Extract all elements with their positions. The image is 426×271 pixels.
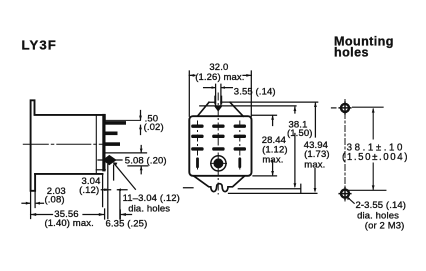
svg-text:dia. holes: dia. holes: [128, 203, 170, 214]
svg-text:LY3F: LY3F: [22, 37, 57, 52]
svg-text:(or 2 M3): (or 2 M3): [365, 221, 405, 232]
svg-text:5.08 (.20): 5.08 (.20): [125, 156, 167, 167]
svg-text:(1.50): (1.50): [287, 128, 313, 139]
svg-text:(1.40) max.: (1.40) max.: [45, 218, 94, 229]
svg-text:(.12): (.12): [79, 185, 99, 196]
svg-text:(.08): (.08): [45, 195, 65, 206]
svg-text:2-3.55 (.14): 2-3.55 (.14): [356, 200, 407, 211]
svg-text:3.55 (.14): 3.55 (.14): [234, 86, 276, 97]
svg-text:holes: holes: [334, 46, 369, 60]
svg-text:6.35 (.25): 6.35 (.25): [106, 218, 148, 229]
svg-text:(1.26) max.: (1.26) max.: [195, 72, 244, 83]
svg-text:(.02): (.02): [144, 122, 164, 133]
svg-text:(1.50±.004): (1.50±.004): [342, 152, 409, 163]
svg-text:max.: max.: [304, 159, 325, 170]
svg-text:max.: max.: [262, 155, 283, 166]
